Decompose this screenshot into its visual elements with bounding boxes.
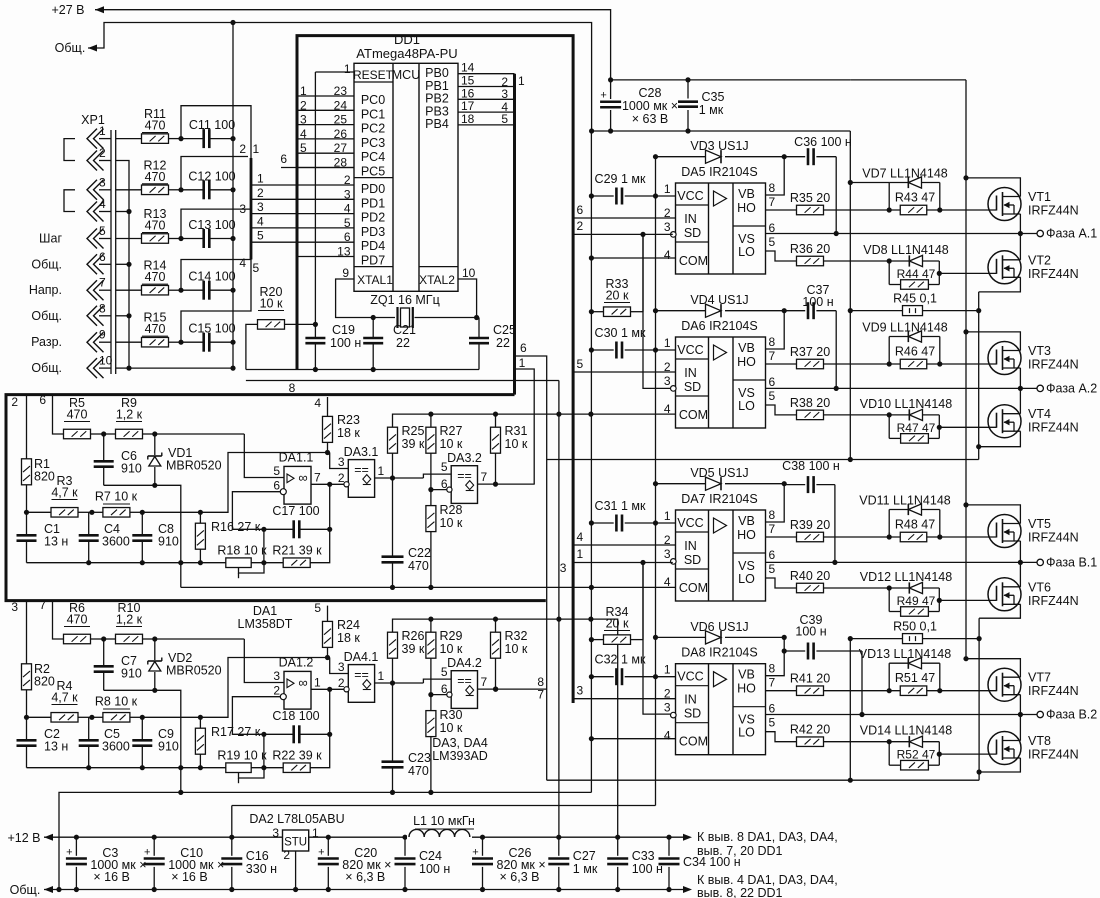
diode VD2 MBR0520 bbox=[154, 639, 156, 660]
svg-text:R19 10 к: R19 10 к bbox=[217, 749, 267, 763]
wire loop C11 to bus bbox=[181, 106, 251, 158]
svg-text:2: 2 bbox=[283, 848, 290, 862]
svg-text:PC0: PC0 bbox=[361, 93, 385, 107]
svg-text:C30 1 мк: C30 1 мк bbox=[595, 326, 646, 340]
svg-text:Фаза В.1: Фаза В.1 bbox=[1046, 555, 1097, 569]
wire +5 feed vertical bbox=[558, 381, 560, 838]
svg-text:4: 4 bbox=[344, 202, 351, 216]
svg-text:R48 47: R48 47 bbox=[895, 518, 935, 532]
svg-text:5: 5 bbox=[300, 141, 307, 155]
wire VT8 source to sense bbox=[979, 758, 1020, 772]
svg-text:3: 3 bbox=[273, 669, 280, 683]
svg-text:VS: VS bbox=[738, 713, 755, 727]
svg-text:Шаг: Шаг bbox=[39, 232, 62, 246]
net ground sense bus A bbox=[849, 131, 851, 460]
capacitor C32 1 мк bbox=[591, 676, 613, 678]
svg-text:8: 8 bbox=[289, 381, 296, 395]
svg-text:470: 470 bbox=[67, 408, 88, 422]
svg-text:IRFZ44N: IRFZ44N bbox=[1028, 531, 1079, 545]
svg-text:∞: ∞ bbox=[298, 675, 307, 690]
wire VT7 drain bbox=[966, 659, 1020, 678]
capacitor C7 910 bbox=[103, 639, 105, 666]
svg-text:3: 3 bbox=[664, 374, 671, 388]
svg-text:1: 1 bbox=[519, 356, 526, 370]
svg-text:5: 5 bbox=[314, 601, 321, 615]
svg-text:XTAL1: XTAL1 bbox=[357, 273, 393, 287]
node driver VCC bus bbox=[655, 157, 657, 806]
svg-text:STU: STU bbox=[284, 837, 307, 849]
resistor R47 47 bbox=[888, 415, 890, 439]
svg-text:R24: R24 bbox=[337, 618, 360, 632]
svg-text:× 16 В: × 16 В bbox=[93, 870, 129, 884]
net +27V bus right bbox=[850, 79, 966, 81]
svg-text:330 н: 330 н bbox=[246, 862, 277, 876]
svg-text:6: 6 bbox=[39, 393, 46, 407]
capacitor C18 100 bbox=[292, 725, 295, 743]
svg-text:К выв. 4 DA1, DA3, DA4,: К выв. 4 DA1, DA3, DA4, bbox=[697, 873, 838, 887]
IC DD1 inner box bbox=[354, 63, 458, 291]
svg-text:COM: COM bbox=[679, 254, 708, 268]
wire VT4 drain bbox=[1019, 388, 1021, 413]
resistor R31 10к bbox=[491, 427, 501, 453]
svg-text:DA4.2: DA4.2 bbox=[447, 656, 482, 670]
capacitor C17 100 bbox=[292, 520, 295, 538]
svg-text:VD11 LL1N4148: VD11 LL1N4148 bbox=[859, 494, 951, 508]
svg-text:C16: C16 bbox=[246, 849, 269, 863]
svg-text:470: 470 bbox=[145, 119, 166, 133]
wire IN DA6 bbox=[573, 371, 675, 373]
svg-text:R17 27 к: R17 27 к bbox=[211, 725, 261, 739]
transistor VT3 IRFZ44N bbox=[988, 342, 1021, 375]
svg-text:910: 910 bbox=[121, 667, 142, 681]
wire ground bottom rail bbox=[44, 889, 690, 891]
svg-text:IN: IN bbox=[684, 366, 697, 380]
svg-text:R47 47: R47 47 bbox=[897, 421, 936, 435]
svg-text:Разр.: Разр. bbox=[31, 335, 62, 349]
wire clamp bottoms to rail bbox=[104, 485, 181, 587]
svg-text:5: 5 bbox=[769, 389, 776, 403]
svg-text:MBR0520: MBR0520 bbox=[166, 664, 222, 678]
svg-text:C23: C23 bbox=[408, 751, 431, 765]
svg-text:R35 20: R35 20 bbox=[790, 191, 830, 205]
svg-text:VCC: VCC bbox=[677, 670, 703, 684]
svg-text:Фаза А.1: Фаза А.1 bbox=[1046, 227, 1097, 241]
resistor R49 47 bbox=[888, 588, 890, 612]
svg-text:VT5: VT5 bbox=[1028, 517, 1051, 531]
capacitor C1 13н bbox=[26, 512, 28, 535]
svg-text:HO: HO bbox=[737, 528, 756, 542]
svg-text:ATmega48PA-PU: ATmega48PA-PU bbox=[356, 46, 457, 61]
connector pin XP1.4 bbox=[87, 202, 97, 222]
svg-text:3600: 3600 bbox=[102, 535, 130, 549]
wire phase B1 row bbox=[766, 561, 1038, 563]
resistor R2 820 bbox=[26, 663, 28, 665]
svg-text:5: 5 bbox=[344, 216, 351, 230]
capacitor C26 bbox=[480, 835, 485, 840]
svg-text:820: 820 bbox=[34, 675, 55, 689]
svg-text:PC1: PC1 bbox=[361, 107, 385, 121]
svg-text:IRFZ44N: IRFZ44N bbox=[1028, 421, 1079, 435]
wire VT8 drain bbox=[1019, 715, 1021, 741]
svg-text:7: 7 bbox=[99, 276, 106, 290]
svg-text:6: 6 bbox=[769, 375, 776, 389]
svg-text:24: 24 bbox=[334, 98, 348, 112]
wire inverting node bbox=[232, 492, 293, 530]
svg-text:R51 47: R51 47 bbox=[895, 671, 935, 685]
wire ground return to bottom bbox=[59, 792, 591, 889]
wire cmp1 output row bbox=[375, 477, 424, 479]
svg-text:6: 6 bbox=[99, 250, 106, 264]
svg-text:R36 20: R36 20 bbox=[790, 242, 830, 256]
svg-text:470: 470 bbox=[408, 764, 429, 778]
transistor VT4 IRFZ44N bbox=[988, 405, 1021, 438]
svg-text:7: 7 bbox=[769, 522, 776, 536]
svg-text:× 6,3 В: × 6,3 В bbox=[500, 870, 540, 884]
svg-text:HO: HO bbox=[737, 355, 756, 369]
svg-text:3: 3 bbox=[99, 175, 106, 189]
svg-text:PC3: PC3 bbox=[361, 136, 385, 150]
svg-text:VCC: VCC bbox=[677, 189, 703, 203]
svg-text:10 к: 10 к bbox=[440, 437, 463, 451]
capacitor C33 bbox=[615, 835, 620, 840]
svg-text:R42 20: R42 20 bbox=[790, 723, 830, 737]
svg-text:VB: VB bbox=[738, 341, 755, 355]
svg-text:VT4: VT4 bbox=[1028, 407, 1051, 421]
svg-text:3: 3 bbox=[664, 547, 671, 561]
wire +5 riser channel B rail bbox=[591, 619, 618, 837]
svg-text:VD12 LL1N4148: VD12 LL1N4148 bbox=[860, 570, 952, 584]
svg-text:IRFZ44N: IRFZ44N bbox=[1028, 594, 1079, 608]
svg-text:10 к: 10 к bbox=[260, 297, 283, 311]
wire SD DA7/DA8 bbox=[573, 562, 673, 564]
svg-text:выв. 7, 20 DD1: выв. 7, 20 DD1 bbox=[697, 844, 783, 858]
capacitor C25 bbox=[474, 315, 479, 320]
svg-text:HO: HO bbox=[737, 201, 756, 215]
svg-text:3: 3 bbox=[272, 826, 279, 840]
svg-text:COM: COM bbox=[679, 735, 708, 749]
wire inverting node bbox=[232, 697, 293, 735]
capacitor C35 bbox=[687, 80, 689, 99]
svg-text:820: 820 bbox=[34, 470, 55, 484]
thick frame DD1 top bbox=[297, 36, 573, 703]
svg-text:PD7: PD7 bbox=[361, 254, 385, 268]
svg-text:LO: LO bbox=[738, 726, 755, 740]
svg-text:R37 20: R37 20 bbox=[790, 345, 830, 359]
wire bootstrap VB DA6 bbox=[766, 311, 785, 349]
svg-text:× 16 В: × 16 В bbox=[171, 870, 208, 884]
svg-text:470: 470 bbox=[408, 559, 429, 573]
wire VT5 source bbox=[1019, 541, 1021, 562]
svg-text:IRFZ44N: IRFZ44N bbox=[1028, 267, 1079, 281]
svg-text:C31 1 мк: C31 1 мк bbox=[595, 499, 646, 513]
svg-text:4: 4 bbox=[257, 214, 264, 228]
wire VT2 drain bbox=[1019, 234, 1021, 260]
svg-text:470: 470 bbox=[145, 219, 166, 233]
IC DD1 XTAL row bbox=[354, 266, 393, 268]
resistor R30 10к bbox=[426, 711, 436, 737]
capacitor C15 bbox=[178, 340, 183, 345]
wire 8 from DD1 bbox=[246, 380, 559, 382]
wire loop C13 to bus bbox=[181, 209, 251, 238]
svg-text:R46 47: R46 47 bbox=[895, 345, 935, 359]
wire SD DA5/DA6 bbox=[573, 233, 673, 235]
svg-text:9: 9 bbox=[342, 266, 349, 280]
svg-text:23: 23 bbox=[334, 84, 348, 98]
connector pin XP1.8 bbox=[87, 306, 97, 326]
svg-text:3: 3 bbox=[239, 202, 246, 216]
svg-text:R8 10 к: R8 10 к bbox=[95, 695, 138, 709]
svg-text:3: 3 bbox=[664, 701, 671, 715]
svg-text:8: 8 bbox=[769, 662, 776, 676]
svg-text:3600: 3600 bbox=[102, 740, 130, 754]
svg-text:VT6: VT6 bbox=[1028, 580, 1051, 594]
wire VT1 source bbox=[1019, 214, 1021, 234]
svg-text:2: 2 bbox=[99, 146, 106, 160]
svg-text:DA7 IR2104S: DA7 IR2104S bbox=[681, 492, 757, 506]
wire ground rail under C28 bbox=[592, 130, 851, 132]
resistor R25 39к bbox=[388, 427, 398, 453]
svg-text:PD0: PD0 bbox=[361, 182, 385, 196]
wire bootstrap VB DA7 bbox=[766, 484, 785, 522]
wire cmp2 in- bbox=[431, 694, 447, 696]
wire VT6 drain bbox=[1019, 562, 1021, 587]
resistor R44 47 bbox=[888, 261, 890, 285]
svg-text:IRFZ44N: IRFZ44N bbox=[1028, 748, 1079, 762]
svg-text:1000 мк ×: 1000 мк × bbox=[622, 99, 678, 113]
svg-text:R31: R31 bbox=[505, 424, 528, 438]
svg-text:ZQ1 16 МГц: ZQ1 16 МГц bbox=[370, 293, 440, 307]
wire VT2 source to sense bbox=[979, 277, 1021, 292]
svg-text:8: 8 bbox=[99, 301, 106, 315]
svg-text:R43 47: R43 47 bbox=[895, 191, 935, 205]
wire cmp1 in+ bbox=[330, 658, 349, 674]
svg-text:C29 1 мк: C29 1 мк bbox=[595, 172, 646, 186]
svg-text:4: 4 bbox=[239, 256, 246, 270]
svg-text:VT3: VT3 bbox=[1028, 344, 1051, 358]
svg-text:4: 4 bbox=[664, 729, 671, 743]
svg-text:VD4 US1J: VD4 US1J bbox=[690, 293, 748, 307]
svg-text:10 к: 10 к bbox=[505, 437, 528, 451]
svg-text:SD: SD bbox=[684, 226, 701, 240]
resistor R26 39к bbox=[388, 632, 398, 658]
svg-text:К выв. 8 DA1, DA3, DA4,: К выв. 8 DA1, DA3, DA4, bbox=[697, 830, 838, 844]
svg-text:1: 1 bbox=[664, 182, 671, 196]
svg-text:C33: C33 bbox=[632, 849, 655, 863]
svg-text:1: 1 bbox=[664, 336, 671, 350]
wire ground bus x233 bbox=[232, 23, 234, 369]
svg-text:Общ.: Общ. bbox=[31, 257, 62, 271]
svg-text:LM393AD: LM393AD bbox=[432, 749, 488, 763]
wire sense loop A bottom bbox=[547, 459, 979, 461]
wire rows to resistors bbox=[116, 138, 142, 140]
output arrows right bbox=[683, 834, 692, 841]
svg-text:C35: C35 bbox=[702, 90, 725, 104]
svg-text:DA4.1: DA4.1 bbox=[344, 650, 379, 664]
capacitor C12 bbox=[178, 187, 183, 192]
IC DD1 PC/PD divider bbox=[354, 177, 393, 179]
svg-text:IN: IN bbox=[684, 693, 697, 707]
svg-text:3: 3 bbox=[300, 113, 307, 127]
svg-text:7: 7 bbox=[481, 470, 488, 484]
svg-text:R32: R32 bbox=[505, 629, 528, 643]
resistor R16 27к bbox=[195, 523, 205, 549]
bridge pins 1-2 bbox=[64, 139, 75, 161]
svg-text:Фаза В.2: Фаза В.2 bbox=[1046, 708, 1097, 722]
svg-text:DA2 L78L05ABU: DA2 L78L05ABU bbox=[249, 812, 344, 826]
connector pin XP1.6 bbox=[87, 254, 97, 274]
svg-text:10 к: 10 к bbox=[440, 721, 463, 735]
svg-text:39 к: 39 к bbox=[402, 437, 425, 451]
svg-text:100 н: 100 н bbox=[419, 862, 450, 876]
svg-text:+: + bbox=[600, 90, 606, 102]
svg-text:R44 47: R44 47 bbox=[897, 267, 936, 281]
capacitor C30 1 мк bbox=[591, 349, 613, 351]
wire XTAL ground rail bbox=[246, 369, 479, 371]
wire 1 tap DD1 bottom bbox=[515, 369, 535, 484]
svg-text:9: 9 bbox=[99, 328, 106, 342]
wire bundle 2 to R1 bbox=[26, 395, 28, 459]
svg-text:LM358DT: LM358DT bbox=[238, 617, 293, 631]
svg-text:Общ.: Общ. bbox=[10, 883, 41, 897]
svg-text:DA3.1: DA3.1 bbox=[344, 445, 379, 459]
svg-text:VB: VB bbox=[738, 514, 755, 528]
node Фаза В.1 bbox=[1037, 559, 1043, 565]
svg-text:8: 8 bbox=[769, 335, 776, 349]
svg-text:MBR0520: MBR0520 bbox=[166, 459, 222, 473]
svg-text:1,2 к: 1,2 к bbox=[116, 408, 143, 422]
capacitor C14 bbox=[178, 288, 183, 293]
svg-text:100 н: 100 н bbox=[795, 625, 826, 639]
svg-text:R52 47: R52 47 bbox=[897, 748, 936, 762]
svg-text:C21: C21 bbox=[393, 323, 416, 337]
svg-text:C12 100: C12 100 bbox=[188, 169, 235, 183]
svg-text:7: 7 bbox=[769, 676, 776, 690]
capacitor C21 bbox=[371, 315, 376, 320]
wire pullup rail bbox=[393, 619, 591, 632]
svg-text:470: 470 bbox=[145, 322, 166, 336]
svg-text:100 н: 100 н bbox=[330, 336, 361, 350]
svg-text:Общ.: Общ. bbox=[55, 41, 86, 55]
svg-text:C28: C28 bbox=[639, 86, 662, 100]
transistor VT7 IRFZ44N bbox=[988, 668, 1021, 701]
svg-text:C32 1 мк: C32 1 мк bbox=[595, 653, 646, 667]
wire noninv input bbox=[244, 639, 284, 683]
svg-text:1: 1 bbox=[378, 464, 385, 478]
capacitor C19 bbox=[314, 324, 316, 337]
svg-text:910: 910 bbox=[158, 535, 179, 549]
bridge pins 3-4 bbox=[64, 190, 75, 212]
svg-text:7: 7 bbox=[314, 471, 321, 485]
wire cmp1 output row bbox=[375, 682, 424, 684]
svg-text:VD14 LL1N4148: VD14 LL1N4148 bbox=[860, 724, 952, 738]
svg-text:22: 22 bbox=[496, 336, 510, 350]
svg-text:13: 13 bbox=[337, 245, 351, 259]
svg-text:Фаза А.2: Фаза А.2 bbox=[1046, 381, 1097, 395]
svg-text:3: 3 bbox=[344, 187, 351, 201]
svg-text:5: 5 bbox=[769, 235, 776, 249]
capacitor C23 470 bbox=[392, 683, 394, 762]
wire phase A1 row bbox=[766, 233, 1038, 235]
svg-text:R40 20: R40 20 bbox=[790, 569, 830, 583]
svg-text:3: 3 bbox=[560, 561, 567, 575]
svg-text:C15 100: C15 100 bbox=[188, 322, 235, 336]
svg-text:18: 18 bbox=[461, 112, 475, 126]
capacitor C11 bbox=[178, 136, 183, 141]
svg-text:R28: R28 bbox=[440, 503, 463, 517]
svg-text:1 мк: 1 мк bbox=[573, 862, 598, 876]
svg-text:5: 5 bbox=[253, 261, 260, 275]
capacitor C27 bbox=[556, 835, 561, 840]
wire VT3 source bbox=[1019, 368, 1021, 388]
wire +12V rail bbox=[44, 836, 690, 838]
node Фаза А.2 bbox=[1037, 385, 1043, 391]
svg-text:× 63 В: × 63 В bbox=[632, 112, 669, 126]
svg-text:6: 6 bbox=[577, 203, 584, 217]
svg-text:C18 100: C18 100 bbox=[272, 709, 319, 723]
resistor R28 10к bbox=[426, 506, 436, 532]
svg-text:5: 5 bbox=[441, 665, 448, 679]
wire bundle 7 to R6 bbox=[53, 600, 64, 639]
svg-text:VT2: VT2 bbox=[1028, 253, 1051, 267]
wire analog ground rail bbox=[181, 586, 676, 588]
svg-text:LO: LO bbox=[738, 572, 755, 586]
resistor R23 18к bbox=[327, 397, 329, 416]
node Фаза В.2 bbox=[1037, 711, 1043, 717]
svg-text:3: 3 bbox=[11, 600, 18, 614]
capacitor C16 bbox=[229, 835, 234, 840]
wire ground return vertical bbox=[590, 131, 592, 792]
svg-text:DA1: DA1 bbox=[253, 604, 277, 618]
svg-text:R25: R25 bbox=[402, 424, 425, 438]
svg-text:3: 3 bbox=[664, 220, 671, 234]
capacitor C22 470 bbox=[392, 478, 394, 557]
svg-text:6: 6 bbox=[769, 702, 776, 716]
wire cmp2 in- bbox=[431, 489, 447, 491]
svg-text:6: 6 bbox=[280, 152, 287, 166]
wire phase A2 row bbox=[766, 387, 1038, 389]
svg-text:DA6 IR2104S: DA6 IR2104S bbox=[681, 319, 757, 333]
svg-text:VB: VB bbox=[738, 668, 755, 682]
svg-text:R38 20: R38 20 bbox=[790, 396, 830, 410]
wire bundle 6 to R5 bbox=[53, 395, 64, 434]
net sense bus B bbox=[849, 639, 851, 781]
capacitor C10 bbox=[152, 835, 157, 840]
node PB bundle bus bbox=[513, 74, 516, 395]
svg-text:4,7 к: 4,7 к bbox=[51, 486, 78, 500]
wire IN DA5 bbox=[573, 217, 675, 219]
svg-text:VD3 US1J: VD3 US1J bbox=[690, 139, 748, 153]
svg-text:5: 5 bbox=[257, 229, 264, 243]
svg-text:2: 2 bbox=[273, 684, 280, 698]
svg-text:10 к: 10 к bbox=[440, 516, 463, 530]
svg-text:VCC: VCC bbox=[677, 343, 703, 357]
svg-text:VS: VS bbox=[738, 232, 755, 246]
capacitor C29 1 мк bbox=[591, 195, 613, 197]
svg-text:PD2: PD2 bbox=[361, 211, 385, 225]
svg-text:DA5 IR2104S: DA5 IR2104S bbox=[681, 165, 757, 179]
svg-text:VD8 LL1N4148: VD8 LL1N4148 bbox=[863, 243, 949, 257]
svg-text:4: 4 bbox=[664, 575, 671, 589]
svg-text:1: 1 bbox=[344, 62, 351, 76]
svg-text:LO: LO bbox=[738, 245, 755, 259]
svg-text:PC4: PC4 bbox=[361, 150, 385, 164]
wire cmp2 output bbox=[478, 483, 535, 485]
wire bundle 3 to R2 bbox=[26, 600, 28, 664]
svg-text:L1 10 мкГн: L1 10 мкГн bbox=[413, 814, 475, 828]
wire XP1 pin10 ground row bbox=[129, 367, 233, 369]
svg-text:выв. 8, 22 DD1: выв. 8, 22 DD1 bbox=[697, 886, 783, 898]
wire phase B2 row bbox=[766, 714, 1038, 716]
